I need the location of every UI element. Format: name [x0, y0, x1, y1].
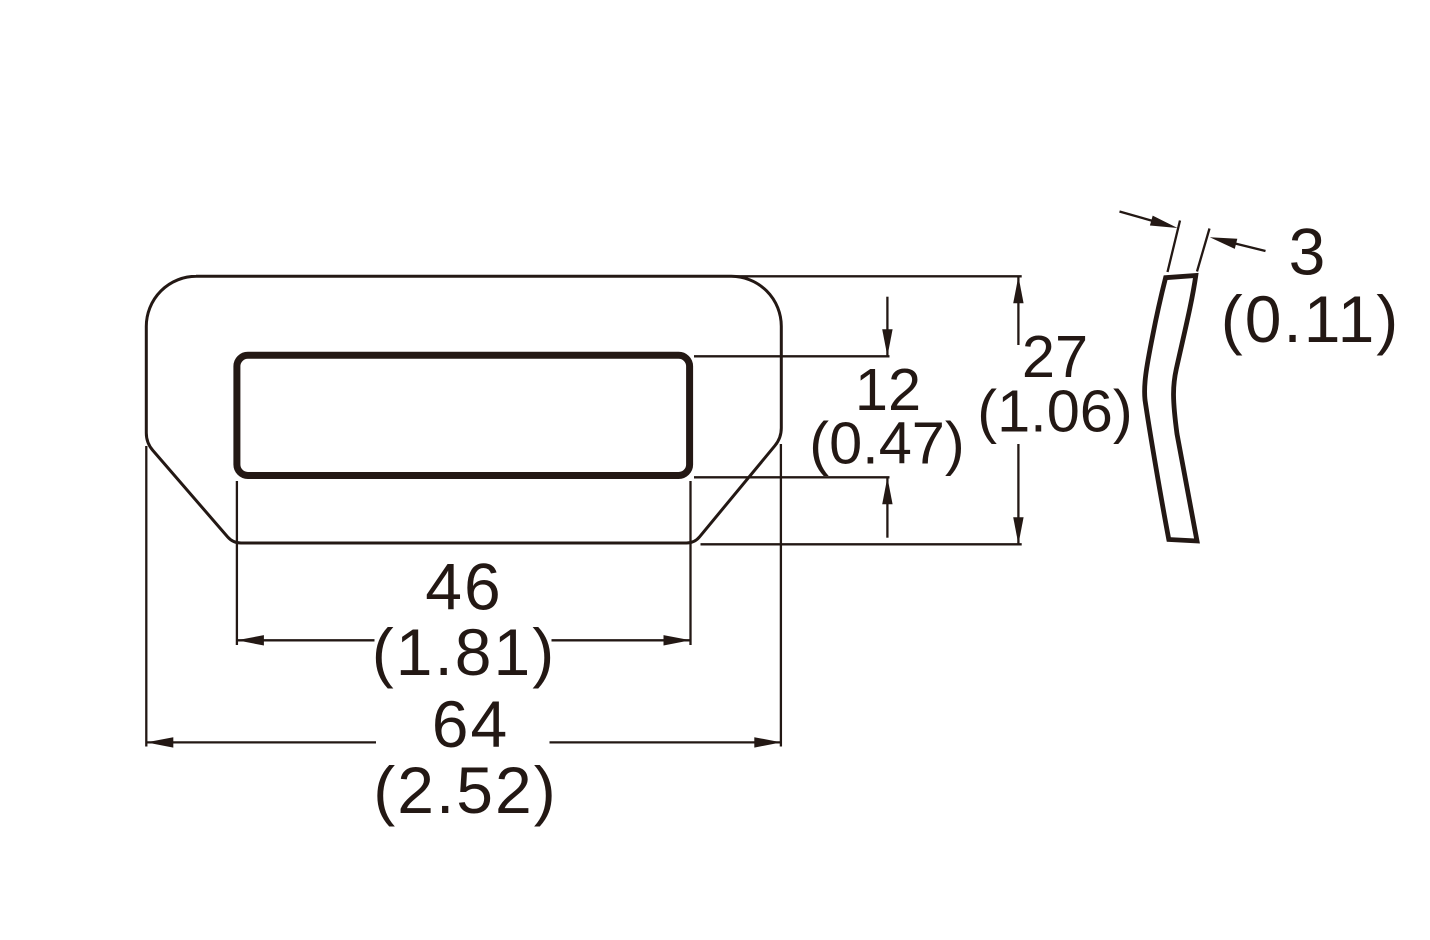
extension line right for dim 46 [689, 481, 691, 645]
arrowhead 3 left [1150, 216, 1178, 228]
extension line top for dim 27 [720, 275, 1022, 277]
front view outer outline [146, 276, 781, 543]
dimension line 46 left segment [237, 639, 375, 641]
arrowhead 3 right [1210, 237, 1238, 249]
svg-text:3: 3 [1289, 215, 1328, 289]
dimension line 27 lower segment [1017, 444, 1019, 544]
svg-text:(2.52): (2.52) [373, 753, 557, 827]
extension line left for dim 3 (tilted) [1168, 221, 1181, 273]
dimension stub 12 bottom [886, 477, 888, 537]
front view inner slot rectangle [237, 355, 690, 475]
extension line bottom for dim 27 [701, 543, 1022, 545]
arrowhead 12 bottom pointing up [882, 477, 892, 504]
side view curved strip [1145, 276, 1197, 542]
dimension stub 12 top [886, 297, 888, 357]
arrowhead 46 right [664, 635, 691, 645]
extension line left for dim 64 [145, 446, 147, 747]
arrowhead 64 right [754, 737, 781, 747]
svg-text:(1.06): (1.06) [977, 378, 1132, 445]
arrowhead 27 bottom [1013, 517, 1023, 544]
extension line left for dim 46 [236, 481, 238, 645]
extension line top for dim 12 [694, 355, 890, 357]
extension line right for dim 64 [780, 444, 782, 747]
arrowhead 64 left [146, 737, 173, 747]
svg-text:(0.11): (0.11) [1221, 282, 1401, 356]
arrowhead 27 top [1013, 276, 1023, 303]
svg-text:(0.47): (0.47) [809, 410, 964, 477]
arrowhead 46 left [237, 635, 264, 645]
svg-text:64: 64 [432, 687, 509, 761]
dimension line 64 left segment [146, 741, 376, 743]
svg-text:(1.81): (1.81) [372, 615, 556, 689]
dimension line 46 right segment [552, 639, 691, 641]
leader line right for dim 3 [1228, 242, 1266, 251]
leader line left for dim 3 [1120, 212, 1161, 224]
dimension line 27 upper segment [1017, 276, 1019, 345]
dimension line 64 right segment [550, 741, 782, 743]
svg-text:46: 46 [425, 550, 502, 624]
extension line bottom for dim 12 [694, 476, 890, 478]
arrowhead 12 top pointing down [882, 329, 892, 356]
extension line right for dim 3 (tilted) [1197, 229, 1210, 272]
